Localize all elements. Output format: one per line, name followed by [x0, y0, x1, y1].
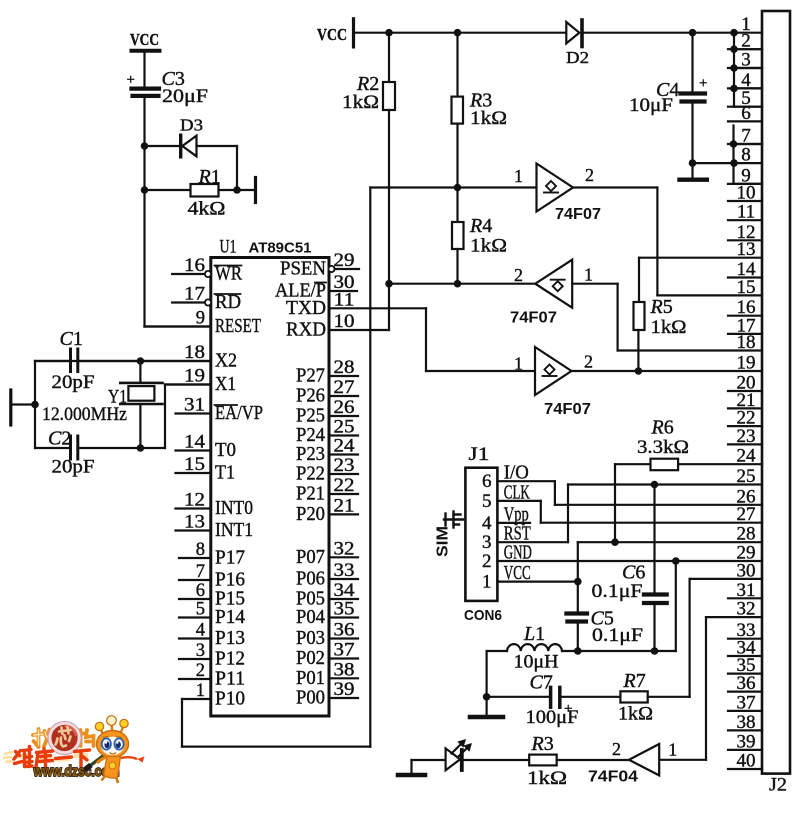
wire CLK to J2 pin 27: [497, 501, 762, 523]
U1 pin 26 P25: [296, 398, 358, 427]
wire I/O to J2 pin 26: [497, 481, 762, 505]
svg-text:2: 2: [612, 739, 621, 759]
U1 pin 39 P00: [296, 680, 358, 709]
J2 pin 16 stub: [728, 315, 762, 317]
J1 pin 6 I/O: [482, 462, 529, 493]
svg-text:P10: P10: [215, 688, 245, 710]
svg-text:10μF: 10μF: [629, 95, 673, 116]
LED D1: [446, 739, 472, 770]
svg-text:33: 33: [334, 561, 355, 581]
U1 pin 29 PSEN: [280, 251, 359, 280]
svg-text:INT1: INT1: [215, 519, 253, 541]
J2 pin 21 stub: [728, 407, 762, 409]
svg-text:X2: X2: [215, 350, 237, 372]
svg-text:2: 2: [585, 165, 594, 185]
svg-text:P17: P17: [215, 547, 245, 569]
U1 pin 19 X1: [165, 367, 236, 396]
U1 pin 2 P11: [179, 661, 245, 690]
J2 pin 14 number: [737, 259, 757, 280]
J2 pin 18 number: [737, 332, 756, 353]
svg-text:P14: P14: [215, 606, 245, 628]
wire C2 row: [35, 447, 165, 449]
svg-text:13: 13: [184, 513, 205, 533]
J1 pin 1 VCC: [482, 562, 531, 593]
svg-text:P00: P00: [296, 687, 325, 709]
svg-text:D3: D3: [180, 116, 203, 135]
J2 pin 16 number: [737, 297, 756, 318]
svg-text:22: 22: [334, 476, 355, 496]
J2 pin 33 stub: [728, 638, 762, 640]
U1 pin 35 P04: [296, 600, 358, 629]
svg-text:0.1μF: 0.1μF: [592, 581, 643, 602]
J1 pin 3 RST: [482, 523, 531, 554]
connector J2 (40-pin): [762, 11, 790, 796]
J2 pin 10 number: [737, 183, 756, 204]
svg-text:38: 38: [737, 712, 756, 733]
J2 pin 9 number: [741, 165, 751, 186]
svg-text:20pF: 20pF: [52, 372, 95, 393]
buffer gate 74F07 #2 (middle, flipped): [510, 260, 593, 327]
capacitor C7 100uF: [487, 672, 621, 729]
wire ground to LED: [412, 759, 446, 761]
J2 pin 13 number: [737, 239, 756, 260]
svg-text:36: 36: [334, 621, 355, 641]
svg-text:3: 3: [196, 641, 205, 661]
resistor R6 3.3k: [615, 417, 762, 543]
J2 pin 38 number: [737, 712, 756, 733]
svg-text:74F04: 74F04: [588, 769, 638, 786]
J2 pin 1 number: [741, 14, 751, 35]
power VCC (top middle): [317, 19, 354, 47]
buffer gate 74F07 #1 (top): [514, 164, 601, 224]
wire J2 pins 7-9 bus: [730, 126, 762, 184]
node junction D3 branch: [141, 142, 149, 150]
U1 pin 9 RESET: [145, 309, 262, 338]
J2 pin 11 number: [737, 202, 755, 223]
node R5/gate3: [635, 367, 643, 375]
capacitor C4 10uF: [629, 33, 707, 163]
node VCC/J2-1: [730, 29, 738, 37]
svg-text:25: 25: [334, 418, 355, 438]
J2 pin 10 stub: [728, 200, 762, 202]
U1 pin 22 P21: [296, 476, 358, 505]
svg-text:1kΩ: 1kΩ: [470, 236, 507, 257]
U1 pin 36 P03: [296, 621, 358, 650]
J2 pin 23 stub: [728, 443, 762, 445]
svg-text:TXD: TXD: [286, 297, 326, 319]
J2 pin 39 number: [737, 731, 756, 752]
node R3/R4/gate1 input: [454, 184, 462, 192]
J2 pin 15 number: [737, 277, 756, 298]
svg-text:1kΩ: 1kΩ: [618, 704, 653, 725]
svg-text:8: 8: [196, 540, 205, 560]
resistor R3 1k (top): [452, 33, 508, 188]
U1 pin 25 P24: [296, 418, 358, 447]
node R4/gate2 output: [454, 280, 462, 288]
capacitor C3 20uF (electrolytic): [127, 68, 209, 107]
svg-text:7: 7: [196, 562, 205, 582]
J2 pin 7 stub: [728, 143, 762, 145]
svg-text:X1: X1: [215, 373, 236, 395]
svg-text:U1: U1: [220, 237, 237, 258]
svg-text:5: 5: [196, 600, 205, 620]
svg-text:35: 35: [334, 600, 355, 620]
svg-text:37: 37: [334, 641, 355, 661]
svg-text:R1: R1: [198, 166, 221, 188]
svg-text:15: 15: [184, 455, 205, 475]
wire gate3 output to J2 pin 19: [572, 370, 763, 372]
svg-text:P21: P21: [296, 483, 325, 505]
svg-text:39: 39: [737, 731, 756, 752]
svg-text:+: +: [127, 72, 135, 88]
wire J2 pins 1-5 bus: [730, 33, 762, 107]
svg-text:CON6: CON6: [464, 607, 502, 624]
J1 pin 4 Vpp: [482, 503, 529, 534]
svg-text:1kΩ: 1kΩ: [470, 108, 507, 129]
J2 pin 26 number: [737, 486, 756, 507]
J2 pin 29 number: [737, 543, 756, 564]
wire gate1 output to J2 pin 15: [573, 188, 762, 296]
svg-text:17: 17: [184, 285, 205, 305]
U1 pin 5 P14: [179, 600, 245, 629]
svg-text:2: 2: [482, 551, 492, 572]
svg-text:P20: P20: [296, 503, 325, 525]
svg-text:J1: J1: [469, 444, 490, 465]
node C6/L1 row: [651, 647, 659, 655]
U1 pin 17 RD: [172, 285, 241, 314]
node C7 row junction: [483, 693, 491, 701]
J2 pin 20 stub: [728, 390, 762, 392]
U1 pin 32 P07: [296, 539, 358, 568]
node C4/GND row: [689, 159, 697, 167]
wire gate2 input from J2 pin 18: [572, 284, 762, 351]
node VCC/R2: [385, 29, 393, 37]
svg-text:P11: P11: [215, 668, 245, 690]
J2 pin 19 number: [737, 353, 756, 374]
node GND/J2 vertical: [730, 159, 738, 167]
U1 pin 8 P17: [179, 540, 245, 569]
svg-text:P02: P02: [296, 647, 325, 669]
J2 pin 21 number: [737, 390, 756, 411]
U1 pin 12 INT0: [176, 491, 254, 520]
svg-text:40: 40: [737, 751, 756, 772]
svg-text:1kΩ: 1kΩ: [651, 317, 687, 338]
svg-text:12: 12: [184, 491, 205, 511]
connector J1 CON6: [464, 444, 502, 624]
J2 pin 14 stub: [728, 276, 762, 278]
U1 pin 28 P27: [296, 358, 358, 387]
J2 pin 6 number: [741, 103, 751, 124]
node X2/Y1: [137, 357, 145, 365]
svg-text:RESET: RESET: [215, 315, 261, 337]
resistor R5 1k: [634, 258, 687, 371]
svg-text:R7: R7: [623, 670, 646, 692]
U1 pin 24 P23: [296, 437, 358, 466]
wire RST to J2 pin 25: [497, 485, 762, 543]
wire 74F04 input from J2 pin 32: [659, 617, 762, 760]
svg-text:34: 34: [334, 581, 355, 601]
U1 pin 3 P12: [179, 641, 245, 670]
J2 pin 31 number: [737, 580, 756, 601]
J2 pin 34 number: [737, 638, 757, 659]
U1 pin 34 P05: [296, 581, 358, 610]
J2 pin 11 stub: [728, 219, 762, 221]
wire gate2 output row: [389, 283, 535, 285]
svg-text:SIM: SIM: [435, 526, 452, 557]
svg-text:R3: R3: [531, 733, 554, 755]
J2 pin 31 stub: [728, 597, 762, 599]
resistor R7 1k: [618, 579, 762, 725]
svg-text:6: 6: [482, 471, 492, 492]
svg-text:P27: P27: [296, 365, 325, 387]
svg-text:J2: J2: [769, 775, 787, 796]
svg-text:1: 1: [514, 354, 523, 374]
svg-text:20pF: 20pF: [52, 457, 95, 478]
U1 pin 11 TXD: [286, 290, 355, 319]
svg-text:R4: R4: [469, 215, 492, 237]
J2 pin 28 number: [737, 524, 756, 545]
U1 pin 27 P26: [296, 378, 358, 407]
svg-text:C2: C2: [48, 428, 71, 450]
diode D3: [145, 116, 238, 157]
capacitor C1 20pF: [52, 328, 95, 393]
svg-text:D2: D2: [566, 48, 589, 67]
svg-text:1: 1: [482, 572, 492, 593]
svg-text:2: 2: [584, 352, 593, 372]
svg-text:74F07: 74F07: [555, 206, 601, 223]
svg-text:26: 26: [334, 398, 355, 418]
J2 pin 4 number: [741, 70, 751, 91]
U1 pin 7 P16: [179, 562, 245, 591]
J2 pin 30 number: [737, 560, 756, 581]
J2 pin 5 stub: [728, 106, 762, 108]
U1 pin 14 T0: [176, 433, 237, 462]
svg-text:R5: R5: [650, 296, 673, 318]
svg-text:74F07: 74F07: [510, 310, 557, 327]
J2 pin 40 stub: [728, 768, 762, 770]
J2 pin 36 stub: [728, 690, 762, 692]
J2 pin 22 number: [737, 408, 756, 429]
U1 pin 4 P13: [179, 621, 245, 650]
wire left vertical + terminal: [11, 361, 39, 448]
svg-text:39: 39: [334, 680, 355, 700]
svg-text:5: 5: [482, 491, 492, 512]
wire J2 pin 13 row: [639, 257, 762, 259]
wire VCC rail to J2 pin 1: [354, 32, 763, 34]
J2 pin 23 number: [737, 426, 756, 447]
J2 pin 7 number: [741, 126, 751, 147]
J2 pin 40 number: [737, 751, 756, 772]
watermark logo www.dzsc.com: [3, 716, 145, 783]
J2 pin 37 stub: [728, 710, 762, 712]
svg-text:INT0: INT0: [215, 497, 253, 519]
svg-text:32: 32: [334, 539, 355, 559]
svg-text:P06: P06: [296, 568, 325, 590]
node GND/L1 vertical: [672, 557, 680, 565]
J2 pin 3 stub: [728, 67, 762, 69]
svg-text:P12: P12: [215, 648, 245, 670]
wire VCC up to J2 pin 28: [578, 542, 762, 581]
svg-text:R6: R6: [651, 417, 674, 439]
J2 pin 22 stub: [728, 425, 762, 427]
J2 pin 20 number: [737, 373, 756, 394]
terminal stub right of R1: [254, 178, 257, 203]
power VCC (left): [130, 30, 160, 51]
svg-text:P04: P04: [296, 606, 325, 628]
svg-text:38: 38: [334, 660, 355, 680]
svg-text:PSEN: PSEN: [280, 258, 326, 280]
J2 pin 36 number: [737, 673, 756, 694]
J2 pin 38 stub: [728, 729, 762, 731]
wire RESET row to U1: [145, 325, 212, 327]
J1 pin 5 CLK: [482, 481, 530, 512]
U1 pin 37 P02: [296, 641, 358, 670]
buffer gate 74F07 #3 (bottom): [514, 347, 593, 418]
svg-text:P13: P13: [215, 627, 245, 649]
J2 pin 39 stub: [728, 749, 762, 751]
J1 pin 2 GND: [482, 542, 532, 573]
svg-text:VCC: VCC: [317, 25, 347, 44]
resistor R2 1k: [342, 33, 395, 330]
J2 pin 9 stub: [728, 183, 762, 185]
svg-text:16: 16: [184, 256, 205, 276]
J2 pin 2 number: [741, 31, 751, 52]
J2 pin 4 stub: [728, 87, 762, 89]
node junction R1 branch: [141, 186, 149, 194]
node VCC/C4: [689, 29, 697, 37]
svg-text:1: 1: [668, 740, 677, 760]
U1 pin 13 INT1: [176, 513, 254, 542]
svg-text:P03: P03: [296, 627, 325, 649]
svg-text:P26: P26: [296, 385, 325, 407]
wire P10 loop to gate1 input: [182, 188, 537, 747]
J2 pin 34 stub: [728, 655, 762, 657]
svg-text:1: 1: [514, 166, 523, 186]
wire L1 rail to GND row: [562, 561, 676, 651]
svg-text:+: +: [699, 76, 707, 92]
resistor R3 1k (bottom): [464, 733, 629, 789]
J2 pin 37 number: [737, 692, 756, 713]
wire X1 to C2 row: [165, 385, 211, 449]
svg-text:0.1μF: 0.1μF: [592, 625, 643, 646]
J2 pin 5 number: [741, 88, 751, 109]
svg-text:2: 2: [514, 265, 523, 285]
svg-text:37: 37: [737, 692, 756, 713]
U1 pin 6 P15: [179, 581, 245, 610]
diode D2: [566, 20, 589, 67]
capacitor C2 20pF: [48, 428, 95, 478]
U1 pin 33 P06: [296, 561, 358, 590]
svg-text:29: 29: [334, 251, 355, 271]
U1 pin 10 RXD: [286, 312, 355, 341]
svg-text:T1: T1: [215, 462, 235, 484]
svg-text:21: 21: [334, 496, 355, 516]
svg-text:P22: P22: [296, 463, 325, 485]
node VCC/C5: [574, 578, 582, 586]
wire TXD pin11 to gate3 input: [329, 308, 535, 371]
svg-text:9: 9: [196, 309, 205, 329]
node C6/RST row: [651, 481, 659, 489]
U1 pin 16 WR: [172, 256, 242, 285]
svg-text:4: 4: [482, 513, 492, 534]
inverter gate 74F04 (flipped): [588, 739, 677, 786]
U1 pin 30 ALE/P: [275, 273, 357, 302]
node C5/L1 row: [574, 647, 582, 655]
svg-text:1: 1: [584, 265, 593, 285]
svg-text:1kΩ: 1kΩ: [527, 768, 567, 789]
wire VCC to C3: [143, 53, 145, 87]
U1 pin 15 T1: [176, 455, 236, 484]
svg-text:P07: P07: [296, 546, 325, 568]
wire RXD pin10 to R2: [329, 329, 389, 331]
ground under C4: [680, 163, 707, 180]
svg-text:L1: L1: [523, 623, 545, 645]
svg-text:28: 28: [334, 358, 355, 378]
svg-text:23: 23: [737, 426, 756, 447]
capacitor C5 0.1uF: [566, 582, 643, 651]
U1 pin 38 P01: [296, 660, 358, 689]
U1 pin 18 X2: [35, 343, 237, 372]
svg-text:14: 14: [184, 433, 205, 453]
wire L1 left down to C7 row: [486, 651, 488, 697]
svg-text:C7: C7: [530, 672, 553, 694]
svg-text:4: 4: [196, 621, 205, 641]
J2 pin 8 number: [741, 145, 751, 166]
J2 pin 6 stub: [728, 120, 762, 122]
J2 pin 25 number: [737, 466, 756, 487]
wire C3 to RESET corner (vertical main): [143, 98, 145, 327]
J2 pin 12 stub: [728, 239, 762, 241]
svg-text:36: 36: [737, 673, 756, 694]
svg-text:1kΩ: 1kΩ: [342, 92, 379, 113]
node VCC/R3: [454, 29, 462, 37]
svg-text:74F07: 74F07: [544, 401, 591, 418]
svg-text:31: 31: [184, 396, 205, 416]
J2 pin 3 number: [741, 50, 751, 71]
resistor R1 4k: [145, 166, 254, 220]
crystal Y1 12.000MHz: [42, 361, 163, 448]
wire D3 cathode down to R1 row: [236, 146, 238, 190]
svg-text:10: 10: [737, 183, 756, 204]
J2 pin 2 stub: [728, 48, 762, 50]
svg-text:8: 8: [741, 145, 751, 166]
J2 pin 17 stub: [728, 333, 762, 335]
op-amp U1 AT89C51 body: [211, 237, 329, 717]
svg-text:4kΩ: 4kΩ: [188, 199, 226, 220]
U1 pin 1 P10: [196, 681, 245, 710]
svg-text:P01: P01: [296, 667, 325, 689]
J2 pin 17 number: [737, 315, 756, 336]
svg-text:AT89C51: AT89C51: [249, 240, 312, 257]
ground at LED: [398, 760, 425, 775]
label SIM card (rotated): [435, 512, 464, 558]
J2 pin 33 number: [737, 620, 756, 641]
J2 pin 27 number: [737, 504, 756, 525]
svg-text:3.3kΩ: 3.3kΩ: [637, 437, 689, 458]
svg-text:11: 11: [737, 202, 755, 223]
J2 pin 35 number: [737, 655, 756, 676]
node junction D3/R1: [233, 186, 241, 194]
resistor R4 1k: [452, 188, 507, 284]
svg-text:RXD: RXD: [286, 319, 326, 341]
J2 pin 24 number: [737, 446, 757, 467]
J2 pin 32 number: [737, 599, 756, 620]
svg-text:12.000MHz: 12.000MHz: [42, 404, 127, 425]
svg-text:100μF: 100μF: [526, 707, 579, 728]
U1 pin 23 P22: [296, 456, 358, 485]
svg-text:24: 24: [334, 437, 355, 457]
wire GND row to J2 pin 8: [693, 162, 763, 164]
